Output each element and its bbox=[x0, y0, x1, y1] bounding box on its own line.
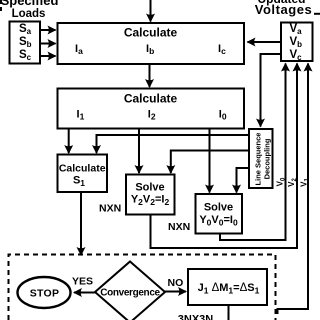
clipped dashed line top-left bbox=[0, 0, 2, 12]
decision: Convergence diamond bbox=[95, 262, 165, 320]
box: Calculate Ia Ib Ic bbox=[58, 23, 245, 64]
box: updated voltages Vabc bbox=[281, 23, 313, 62]
svg-text:Calculate: Calculate bbox=[124, 26, 178, 40]
box: J1 dM1 = dS1 bbox=[188, 269, 267, 305]
svg-text:Y2V2=I2: Y2V2=I2 bbox=[131, 194, 170, 208]
svg-text:Solve: Solve bbox=[204, 201, 233, 213]
svg-text:NXN: NXN bbox=[168, 221, 190, 233]
wire: diamond to J1 box arrow bbox=[165, 291, 186, 293]
dashed iteration boundary box bbox=[9, 255, 276, 320]
svg-text:YES: YES bbox=[72, 276, 93, 288]
wire: solve2 output to V box (V2 return) bbox=[151, 64, 298, 249]
wire: bus B from LSD to solve2 arrow bbox=[171, 151, 249, 174]
wire: calc2 to calculate S1 arrow bbox=[68, 129, 70, 153]
wire: top entry arrow bbox=[150, 0, 152, 22]
svg-text:Loads: Loads bbox=[12, 8, 46, 20]
box: Calculate I1 I2 I0 bbox=[58, 89, 245, 129]
box: Solve Y0V0=I0 bbox=[196, 194, 243, 234]
wire: calc2 to solve2 arrow bbox=[138, 129, 140, 173]
svg-text:NO: NO bbox=[168, 277, 184, 289]
box: Calculate S1 bbox=[58, 155, 108, 193]
box: line sequence decoupling bbox=[249, 129, 273, 188]
svg-text:Convergence: Convergence bbox=[100, 288, 160, 299]
wire: bus A from LSD to calculate S1 arrow bbox=[97, 135, 250, 153]
box: specified loads Sabc bbox=[10, 22, 41, 64]
svg-text:Calculate: Calculate bbox=[124, 92, 178, 106]
box: Solve Y2V2=I2 bbox=[126, 175, 175, 215]
svg-text:Voltages: Voltages bbox=[255, 2, 313, 17]
svg-text:Y0V0=I0: Y0V0=I0 bbox=[199, 214, 238, 228]
svg-text:3NX3N: 3NX3N bbox=[178, 314, 214, 320]
wire: bus C from LSD to solve0 arrow bbox=[237, 168, 250, 193]
wire: V box to calc1 arrow bbox=[248, 41, 282, 43]
svg-text:Decoupling: Decoupling bbox=[263, 138, 272, 179]
wire: arrow Sb to calc box bbox=[40, 43, 56, 45]
wire: bottom return to V box (V1 return) bbox=[278, 64, 309, 315]
wire: arrow Sc to calc box bbox=[40, 55, 56, 57]
svg-text:Solve: Solve bbox=[135, 181, 164, 193]
svg-text:Specified: Specified bbox=[1, 0, 59, 8]
terminator: STOP ellipse bbox=[18, 277, 71, 308]
wire: solve0 output to V box (V0 return) bbox=[220, 64, 286, 241]
clipped dash right of Voltages bbox=[314, 13, 320, 15]
svg-text:Line Sequence: Line Sequence bbox=[254, 133, 263, 186]
wire: calcS1 down to dashed region arrow bbox=[80, 192, 82, 255]
wire: calc1 to calc2 arrow bbox=[149, 64, 151, 87]
wire: J1 box down to clipped box bbox=[228, 305, 230, 320]
svg-text:Calculate: Calculate bbox=[59, 163, 106, 175]
svg-text:STOP: STOP bbox=[30, 287, 60, 299]
wire: diamond to STOP arrow bbox=[74, 292, 95, 294]
svg-text:NXN: NXN bbox=[99, 203, 121, 215]
wire: calc2 to solve0 arrow bbox=[209, 129, 211, 193]
wire: arrow Sa to calc box bbox=[40, 29, 56, 31]
wire: V box down to line sequence decoupling bbox=[261, 54, 282, 127]
